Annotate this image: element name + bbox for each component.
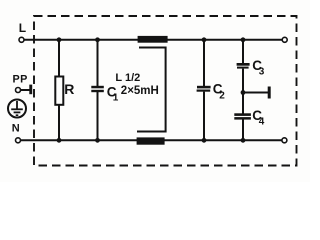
svg-text:N: N bbox=[12, 122, 20, 134]
svg-text:2×5mH: 2×5mH bbox=[121, 85, 159, 97]
svg-text:R: R bbox=[64, 81, 74, 97]
svg-text:1: 1 bbox=[113, 93, 119, 104]
svg-text:PP: PP bbox=[13, 74, 28, 86]
svg-text:L: L bbox=[19, 21, 26, 35]
svg-text:L 1/2: L 1/2 bbox=[115, 72, 140, 84]
svg-text:3: 3 bbox=[259, 66, 265, 77]
svg-text:4: 4 bbox=[259, 117, 265, 128]
svg-text:2: 2 bbox=[219, 91, 225, 102]
